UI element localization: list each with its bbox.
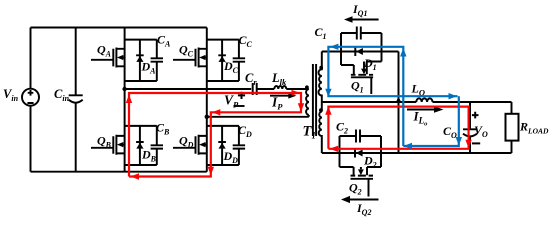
blue arrow up mid vertical (400, 48, 406, 57)
svg-text:IP: IP (271, 95, 283, 112)
red arrow up secondary left (325, 106, 331, 115)
arrow IP (270, 93, 296, 99)
wire QB cell top (125, 125, 157, 127)
svg-text:DD: DD (223, 149, 239, 165)
capacitor C2 (340, 130, 382, 143)
capacitor Cin (69, 28, 83, 172)
arrow on drop wire (396, 97, 402, 103)
svg-text:CO: CO (443, 124, 457, 140)
node B (205, 115, 209, 119)
svg-text:CC: CC (239, 33, 253, 49)
plus VO (472, 112, 479, 119)
wire top rail (31, 27, 207, 29)
svg-text:QD: QD (179, 133, 194, 149)
wire node B to primary bottom (207, 115, 309, 117)
transistor QC (173, 48, 207, 68)
plus VP (238, 92, 245, 99)
svg-text:CB: CB (156, 121, 170, 137)
red arrow up left leg (126, 95, 132, 104)
svg-text:IQ2: IQ2 (356, 201, 371, 217)
capacitor CA (151, 40, 163, 81)
transistor QD (173, 135, 207, 155)
wire bridge leg A-B (124, 28, 126, 172)
capacitor CC (233, 40, 245, 81)
capacitor Cr (253, 83, 257, 95)
wire bottom rail (31, 171, 207, 173)
svg-text:ILo: ILo (413, 109, 429, 128)
transistor QB (91, 135, 125, 155)
minus VP (234, 105, 245, 107)
capacitor C1 (341, 27, 382, 40)
svg-text:Llk: Llk (271, 71, 287, 87)
cell2 right vertical (380, 136, 382, 167)
wire bridge leg C-D (206, 28, 208, 172)
polarity dot secondary bottom (319, 108, 323, 112)
arrow IQ1 (344, 16, 379, 23)
svg-text:CA: CA (157, 33, 171, 49)
diode DA (136, 40, 144, 81)
capacitor CB (151, 126, 163, 165)
transformer secondary bottom winding (319, 112, 322, 154)
red arrow left bottom (131, 173, 140, 179)
svg-text:VO: VO (474, 123, 488, 139)
inductor Llk (257, 86, 309, 89)
svg-text:CD: CD (238, 123, 252, 139)
blue arrow left top (330, 44, 339, 50)
diode D2 (355, 149, 363, 158)
red arrow down right of transformer (298, 103, 304, 112)
capacitor CO (463, 102, 477, 153)
arrow IQ2 (341, 196, 379, 203)
svg-text:DB: DB (141, 148, 157, 164)
diode D1 (355, 47, 363, 56)
transformer secondary top winding (319, 52, 322, 112)
svg-text:RLOAD: RLOAD (519, 120, 549, 136)
wire QB cell bottom (125, 164, 157, 166)
blue arrow left bottom (404, 143, 413, 149)
wire QA cell bottom (125, 80, 157, 82)
blue current loop secondary (328, 47, 458, 146)
transformer T1 primary winding (306, 89, 309, 115)
transistor Q2 (340, 167, 382, 197)
wire cell1 drop to rail (398, 52, 400, 154)
arrow ILo (407, 106, 444, 113)
svg-text:Q1: Q1 (351, 79, 364, 95)
diode DD (218, 126, 226, 165)
transformer core (313, 64, 316, 136)
polarity dot primary (305, 85, 309, 89)
red arrow right top segment (292, 90, 300, 96)
wire center tap rail (322, 101, 417, 103)
minus VO (472, 142, 480, 144)
diode DC (218, 40, 226, 81)
source Vin (22, 89, 39, 106)
red current loop secondary (328, 107, 468, 149)
wire D1 row (322, 51, 399, 53)
svg-text:Cin: Cin (54, 87, 70, 103)
cell2 left vertical (339, 136, 341, 167)
polarity dot secondary top (319, 66, 323, 70)
diode DB (136, 126, 144, 165)
wire left rail bottom (30, 106, 32, 172)
svg-text:Q2: Q2 (349, 181, 362, 197)
svg-text:IQ1: IQ1 (352, 2, 367, 18)
wire QD cell top (207, 125, 239, 127)
wire QD cell bottom (207, 164, 239, 166)
transistor QA (91, 48, 125, 68)
wire left rail top (30, 28, 32, 89)
svg-text:QB: QB (97, 133, 112, 149)
red arrow down right leg (208, 167, 214, 176)
inductor LO (416, 98, 432, 102)
wire QA cell top (125, 39, 157, 41)
svg-text:C2: C2 (336, 120, 348, 136)
red arrow left mid wire (212, 109, 221, 115)
wire node A to Cr (125, 88, 252, 90)
blue arrow down winding (325, 89, 331, 97)
wire center rail to RLOAD (433, 102, 512, 114)
blue arrow right center (449, 93, 458, 99)
svg-text:QA: QA (97, 43, 112, 59)
cell1 left vertical (340, 33, 342, 65)
cell1 right vertical (381, 33, 383, 62)
wire QC cell top (207, 39, 239, 41)
wire bottom rail secondary (322, 152, 512, 154)
node A (122, 87, 126, 91)
resistor RLOAD (506, 114, 519, 153)
red current loop primary (129, 93, 301, 177)
red arrow down CO (465, 140, 471, 149)
capacitor CD (233, 126, 245, 165)
transistor Q1 (341, 62, 382, 95)
blue arrow down right (456, 137, 462, 146)
svg-text:QC: QC (179, 43, 194, 59)
wire QC cell bottom (207, 80, 239, 82)
svg-text:Cr: Cr (245, 71, 257, 87)
svg-text:C1: C1 (315, 25, 327, 41)
svg-text:Vin: Vin (3, 87, 19, 103)
red arrow left secondary bottom (330, 146, 339, 152)
